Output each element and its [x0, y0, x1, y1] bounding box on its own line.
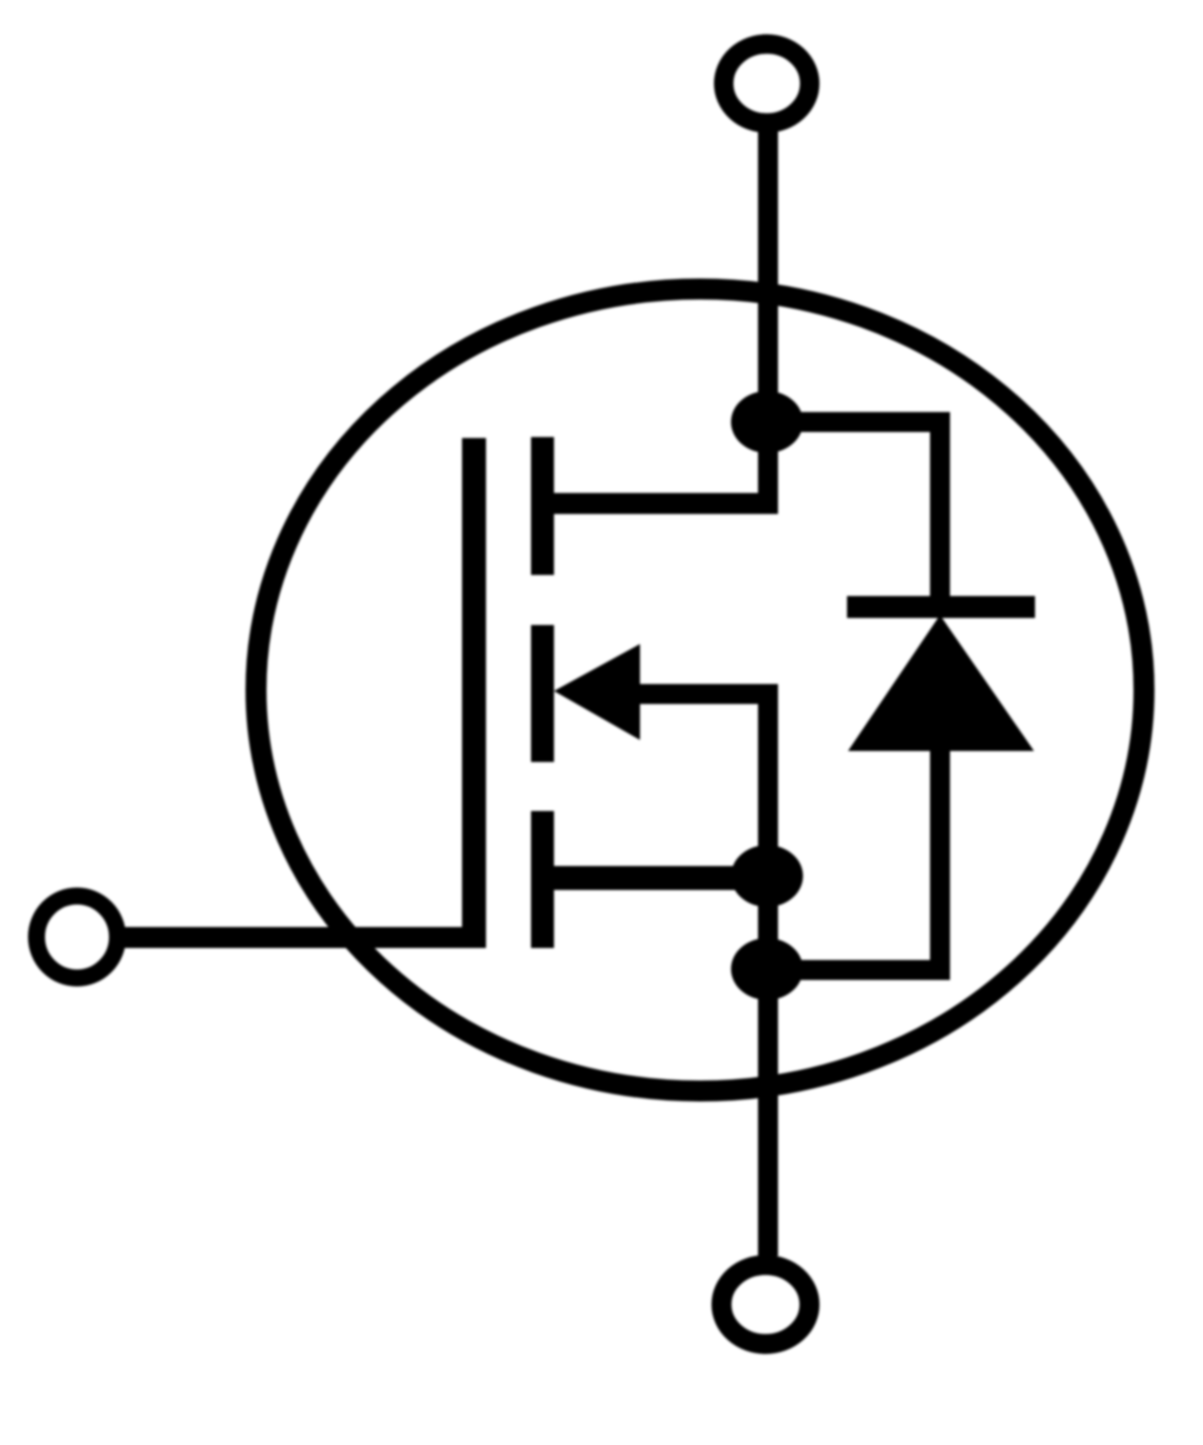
wire: gate terminal to gate pole: [120, 927, 486, 948]
drain terminal (top): [724, 44, 810, 123]
body arrow head (points left at middle bar): [554, 644, 640, 740]
wire: diode branch top horizontal: [768, 412, 950, 432]
wire: drain terminal to drain junction and drain contact corner: [758, 126, 778, 514]
wire: diode branch bottom horizontal: [768, 960, 950, 980]
wire: diode cathode lead (top vertical): [930, 412, 950, 596]
gate pole (left vertical bar): [462, 438, 486, 948]
wire: body branch vertical down to source junction: [758, 684, 778, 884]
channel segment: source contact bar (bottom): [531, 811, 554, 948]
diode D1 cathode bar: [847, 596, 1035, 618]
wire: drain horizontal to channel top contact: [554, 493, 778, 514]
transistor envelope circle: [256, 289, 1144, 1091]
channel segment: body contact bar (middle): [531, 625, 554, 762]
wire: source junction down to source terminal: [758, 876, 778, 1256]
wire: source horizontal from bottom bar to source junction: [554, 866, 768, 890]
junction dot: source/diode node: [731, 938, 803, 1000]
wire: diode anode lead (bottom vertical): [930, 749, 950, 980]
junction dot: drain node: [731, 391, 803, 453]
gate terminal (left): [37, 896, 118, 978]
source terminal (bottom): [722, 1265, 810, 1344]
junction dot: source/body node: [731, 845, 803, 907]
channel segment: drain contact bar: [531, 437, 554, 575]
wire: body arrow horizontal: [620, 684, 778, 704]
diode D1 anode triangle: [848, 615, 1034, 751]
